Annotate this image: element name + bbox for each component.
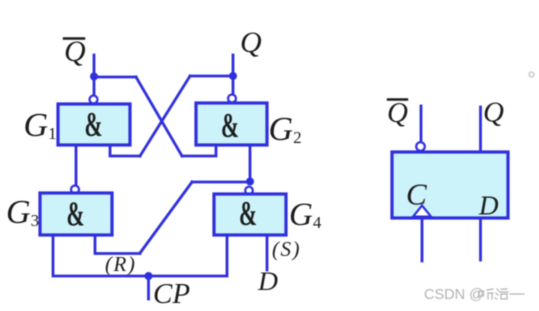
output bubble of G2 (228, 95, 236, 103)
output bubble of G1 (90, 96, 98, 104)
wire Q feedback diagonal (140, 76, 190, 156)
junction dot on G4 output net (246, 178, 254, 186)
NAND gate G3 (40, 193, 112, 235)
svg-text:CSDN @: CSDN @ (424, 287, 484, 303)
bubble on symbol Q-bar output (416, 142, 425, 151)
NAND gate G1 (58, 104, 130, 145)
wire symbol D input (479, 218, 482, 260)
svg-text:&: & (85, 105, 103, 144)
svg-text:Q: Q (387, 97, 408, 129)
wire G4 output feedback horizontal (192, 181, 250, 184)
watermark CSDN @听海— (424, 287, 524, 303)
net label Q-bar (left circuit output) (64, 35, 86, 68)
output bubble of G4 (245, 187, 253, 195)
wire Q-bar feedback horizontal (94, 76, 136, 79)
wire Q-bar feedback diagonal (136, 77, 182, 156)
wire symbol Q-bar output (420, 106, 423, 142)
wire CP input stub (147, 276, 150, 299)
output bubble of G3 (71, 186, 79, 194)
NAND gate G4 (214, 194, 286, 235)
wire D input (266, 235, 269, 270)
latch symbol box (392, 152, 508, 218)
NAND gate G2 (196, 103, 267, 145)
wire symbol Q output (479, 107, 482, 152)
junction dot on Q net (229, 72, 237, 80)
svg-text:Q: Q (483, 97, 504, 129)
wire G3 output to G1 left input (75, 145, 78, 186)
wire CP rail connecting G3 and G4 clock inputs (53, 235, 227, 276)
wire symbol C input (421, 218, 424, 261)
junction dot on Q-bar net (90, 73, 98, 81)
svg-text:&: & (221, 106, 239, 145)
svg-text:&: & (239, 194, 257, 233)
svg-text:(R): (R) (105, 252, 136, 276)
svg-text:Q: Q (240, 26, 262, 59)
wire G2 right input pin down to G4 output node (249, 145, 252, 178)
svg-text:Q: Q (64, 35, 86, 68)
svg-text:&: & (67, 195, 85, 234)
svg-text:D: D (257, 267, 278, 296)
wire Q feedback step into G1 input (110, 145, 140, 156)
wire Q-bar feedback step into G2 input (182, 145, 216, 156)
wire Q-bar vertical stub (93, 55, 96, 96)
svg-text:D: D (478, 191, 499, 221)
svg-text:CP: CP (153, 278, 190, 310)
wire G4 output feedback step into G3 right input (95, 235, 140, 254)
dynamic-input triangle on C pin (413, 206, 431, 217)
wire G4 output feedback diagonal (140, 182, 192, 253)
wire Q vertical stub (232, 55, 235, 95)
net label Q-bar (symbol) (387, 97, 408, 129)
wire Q feedback horizontal (190, 75, 233, 78)
junction dot on CP rail (145, 272, 153, 280)
decorative bullet ring (page artifact) (529, 72, 534, 77)
svg-text:(S): (S) (272, 237, 301, 261)
